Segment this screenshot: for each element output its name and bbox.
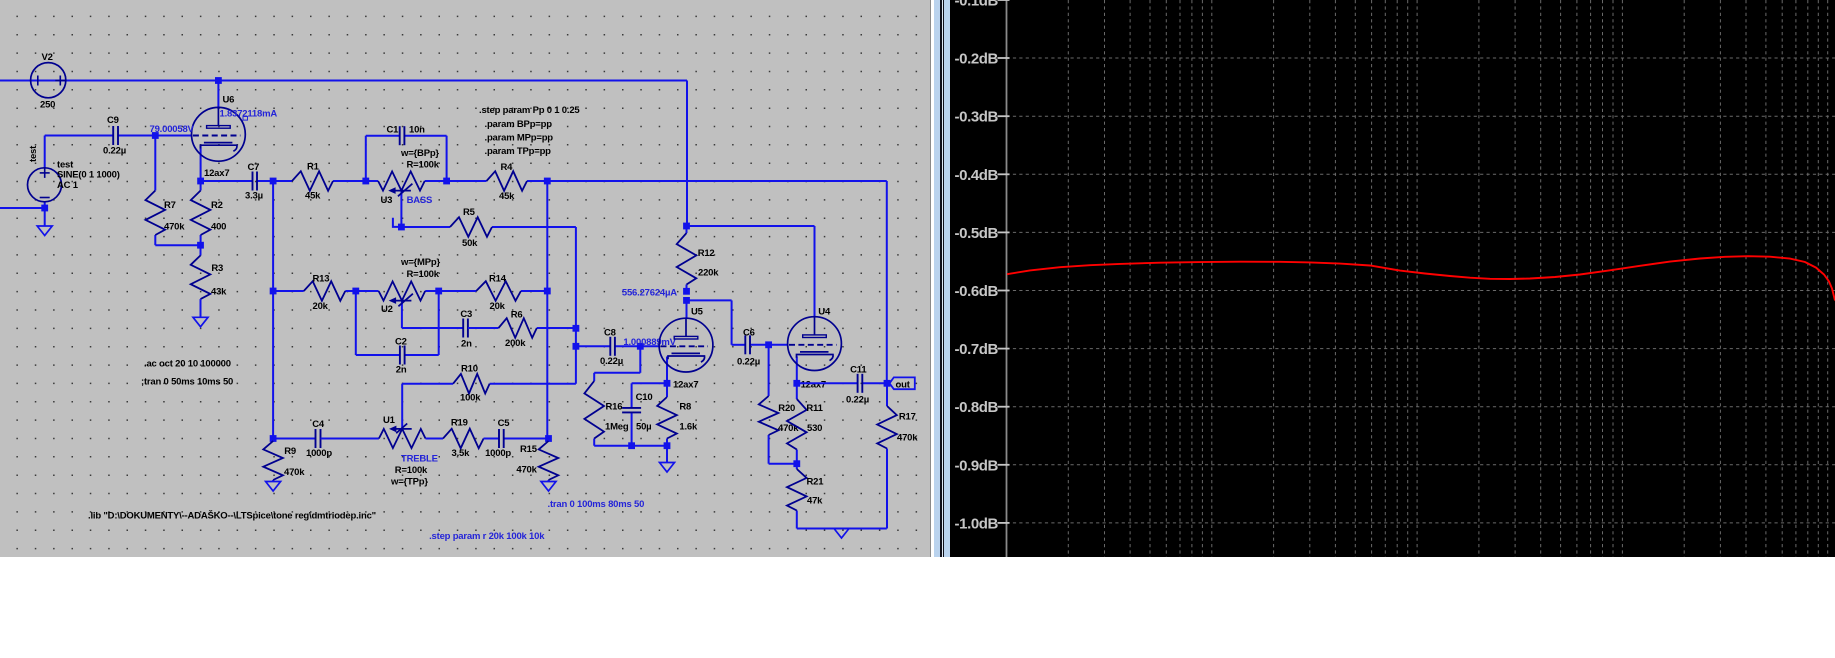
resistor R16 (593, 380, 595, 382)
svg-text:C5: C5 (498, 418, 511, 429)
wire R4 vertical bus (546, 181, 548, 439)
wire left vertical bus (272, 181, 274, 439)
svg-text:C8: C8 (604, 328, 616, 339)
resistor R21 (796, 464, 798, 469)
wire C1 left riser (365, 136, 367, 181)
svg-text:R5: R5 (463, 207, 476, 218)
triode tube U5 (659, 318, 713, 372)
wire grid net drop (639, 346, 641, 373)
svg-text:V2: V2 (42, 52, 53, 63)
node R1/C1/U3 (362, 178, 369, 185)
node test bottom (41, 205, 48, 212)
wire U3 wiper drop (400, 190, 402, 227)
wire U4 cathode lead (796, 356, 798, 383)
svg-text:470k: 470k (516, 465, 537, 476)
capacitor C6 (732, 344, 746, 346)
wire U3 lower stub (393, 218, 402, 227)
node C4 in node (270, 435, 277, 442)
node U6 cathode node (197, 178, 204, 185)
svg-text:79.00058V: 79.00058V (150, 124, 195, 135)
node out node (884, 380, 891, 387)
svg-text:SINE(0 1 1000): SINE(0 1 1000) (57, 170, 120, 181)
node C8 in node (573, 343, 580, 350)
svg-text:R2: R2 (211, 200, 223, 211)
node C1/U3/R4 (443, 178, 450, 185)
svg-text:test: test (28, 145, 39, 162)
svg-text:R15: R15 (520, 444, 538, 455)
svg-text:-1.0dB: -1.0dB (955, 515, 999, 532)
svg-text:U3: U3 (381, 195, 393, 206)
svg-text:R16: R16 (606, 402, 623, 413)
node U3 wiper node (398, 224, 405, 231)
resistor R2 (200, 190, 202, 192)
resistor R13 (273, 290, 304, 292)
svg-text:U1: U1 (383, 415, 396, 426)
svg-text:-0.8dB: -0.8dB (955, 399, 999, 416)
svg-text:R7: R7 (164, 200, 176, 211)
node R7/R2/R3 (197, 242, 204, 249)
svg-text:.param MPp=pp: .param MPp=pp (485, 133, 554, 144)
capacitor C10 (631, 383, 633, 408)
svg-text:1Meg: 1Meg (605, 422, 629, 433)
svg-text:220k: 220k (698, 268, 719, 279)
svg-text:AC 1: AC 1 (57, 180, 79, 191)
resistor R6 (468, 327, 499, 329)
svg-text:20k: 20k (490, 301, 506, 312)
svg-text:2n: 2n (396, 365, 407, 376)
plot grid (1007, 0, 1835, 557)
node R6 out node (573, 325, 580, 332)
wire R7 bottom lead (154, 235, 156, 245)
svg-text:20k: 20k (313, 301, 329, 312)
svg-text:C10: C10 (636, 392, 653, 403)
node U4 cathode node (793, 380, 800, 387)
svg-text:R19: R19 (451, 418, 468, 429)
wire to R16 top (594, 372, 640, 374)
node U2/C2/R14 (435, 288, 442, 295)
svg-text:47k: 47k (807, 496, 823, 507)
node U4 grid node (765, 341, 772, 348)
svg-text:470k: 470k (284, 467, 305, 478)
resistor R3 (200, 245, 202, 255)
resistor R19 (426, 438, 443, 440)
svg-text:C4: C4 (312, 419, 325, 430)
svg-text:3.3µ: 3.3µ (245, 191, 263, 202)
wire plate out wire (687, 299, 732, 301)
svg-text:400: 400 (211, 222, 226, 233)
wire output gnd row (797, 528, 887, 530)
dB tick labels (998, 0, 1010, 1)
potentiometer U2 (356, 290, 379, 292)
svg-text:530: 530 (807, 423, 822, 434)
potentiometer U3 (366, 180, 378, 182)
svg-text:200k: 200k (505, 338, 526, 349)
svg-text:C7: C7 (248, 162, 260, 173)
capacitor C5 (484, 438, 499, 440)
svg-text:R14: R14 (489, 274, 507, 285)
wire feedback right drop (886, 181, 888, 383)
svg-text:0.22µ: 0.22µ (600, 356, 623, 367)
node U5 grid node (637, 343, 644, 350)
svg-text:R=100k: R=100k (395, 465, 428, 476)
node R13/U2/C2 (352, 288, 359, 295)
svg-text:1000p: 1000p (306, 448, 332, 459)
resistor R5 (401, 226, 450, 228)
svg-text:out: out (896, 380, 911, 391)
svg-text:10n: 10n (409, 125, 425, 136)
svg-text:.lib "D:\DOKUMENTY\--ADAŠKO--\: .lib "D:\DOKUMENTY\--ADAŠKO--\LTSpice\to… (88, 510, 376, 522)
triode tube U6 (192, 107, 246, 161)
resistor R7 (154, 190, 156, 192)
svg-text:C3: C3 (460, 309, 472, 320)
svg-text:BASS: BASS (407, 195, 433, 206)
svg-text:556.27624µA: 556.27624µA (622, 288, 677, 299)
wire C1 right drop (446, 136, 448, 181)
svg-text:.ac oct 20 10 100000: .ac oct 20 10 100000 (144, 359, 231, 370)
svg-text:45k: 45k (305, 191, 321, 202)
resistor R8 (666, 383, 668, 397)
svg-text:.step param Pp 0 1 0.25: .step param Pp 0 1 0.25 (479, 105, 580, 116)
capacitor C3 (402, 327, 463, 329)
svg-text:0.22µ: 0.22µ (737, 357, 760, 368)
wire R3 bottom lead (200, 299, 202, 317)
svg-text:470k: 470k (164, 222, 185, 233)
svg-text:50k: 50k (462, 238, 478, 249)
svg-text:-0.7dB: -0.7dB (955, 341, 999, 358)
node B+/U6 plate (215, 77, 222, 84)
resistor R11 (796, 383, 798, 399)
svg-text:-0.9dB: -0.9dB (955, 457, 999, 474)
svg-text:250: 250 (40, 100, 55, 111)
svg-text:3.5k: 3.5k (452, 448, 471, 459)
wire R7-R2 bottom tie (155, 244, 200, 246)
svg-text:R4: R4 (501, 162, 514, 173)
svg-text:C1: C1 (387, 125, 400, 136)
svg-text:-0.2dB: -0.2dB (955, 51, 999, 68)
voltage source test (28, 168, 62, 202)
ground (R3) (193, 317, 208, 327)
svg-text:1.6k: 1.6k (679, 422, 698, 433)
wire R16 bottom lead (593, 439, 595, 446)
svg-text:U5: U5 (691, 307, 704, 318)
wire mid vertical bus (575, 227, 577, 384)
wire U1 wiper riser (401, 384, 403, 429)
svg-text:U4: U4 (818, 307, 831, 318)
wire U4 plate lead (814, 226, 816, 318)
frequency response trace V(out) (1007, 256, 1835, 300)
capacitor C2 (356, 354, 400, 356)
capacitor C1 (366, 135, 400, 137)
capacitor C4 (273, 438, 315, 440)
resistor R20 (768, 395, 770, 397)
node C5/R15 node (545, 435, 552, 442)
svg-text:R9: R9 (284, 446, 296, 457)
y axis (1006, 0, 1008, 557)
wire C2 left drop (355, 291, 357, 355)
resistor R9 (272, 439, 274, 442)
svg-text:0.22µ: 0.22µ (103, 146, 126, 157)
window splitter (930, 0, 931, 557)
node R14 out node (544, 288, 551, 295)
wire R20 top lead (768, 345, 770, 396)
wire R20-R11 tie (769, 463, 797, 465)
resistor R12 (686, 226, 688, 233)
svg-text:R3: R3 (211, 263, 223, 274)
svg-text:R8: R8 (679, 402, 691, 413)
node U5 plate node (683, 297, 690, 304)
ground (test) (37, 226, 52, 236)
wire gnd lead (666, 446, 668, 463)
svg-text:C6: C6 (743, 328, 755, 339)
svg-text:-0.3dB: -0.3dB (955, 109, 999, 126)
svg-text:R=100k: R=100k (407, 269, 440, 280)
capacitor C7 (201, 180, 253, 182)
wire input stub (0, 207, 45, 209)
out port flag (890, 377, 915, 389)
svg-text:1000p: 1000p (485, 448, 511, 459)
svg-text:.tran 0 100ms 80ms 50: .tran 0 100ms 80ms 50 (548, 499, 645, 510)
wire U6 cathode to R2 (200, 146, 202, 191)
svg-text:;tran 0 50ms 10ms 50: ;tran 0 50ms 10ms 50 (141, 377, 233, 388)
svg-text:U2: U2 (381, 304, 393, 315)
wire U6 plate lead (217, 81, 219, 110)
resistor R10 (402, 383, 453, 385)
svg-text:470k: 470k (778, 423, 799, 434)
svg-text:-0.6dB: -0.6dB (955, 283, 999, 300)
svg-text:w={MPp}: w={MPp} (400, 257, 440, 268)
node bus/R13 (270, 288, 277, 295)
wire R7 top lead (154, 136, 156, 191)
wire R20 bottom lead (768, 435, 770, 464)
svg-text:C11: C11 (850, 365, 867, 376)
ground (R9) (266, 482, 281, 492)
svg-text:U6: U6 (223, 95, 235, 106)
node R8 gnd node (664, 442, 671, 449)
svg-text:w={BPp}: w={BPp} (400, 148, 439, 159)
svg-text:12ax7: 12ax7 (673, 380, 698, 391)
wire test source to C9 row (44, 136, 46, 168)
svg-text:1.8372118mA: 1.8372118mA (220, 109, 278, 120)
resistor R17 (886, 383, 888, 406)
svg-text:R11: R11 (806, 403, 823, 414)
svg-text:-0.5dB: -0.5dB (955, 225, 999, 242)
svg-text:-0.1dB: -0.1dB (955, 0, 999, 10)
voltage source V2 (31, 63, 66, 98)
wire cathode gnd row (594, 445, 667, 447)
svg-text:R17: R17 (899, 412, 916, 423)
svg-text:C9: C9 (107, 115, 119, 126)
ground (cathode) (660, 463, 675, 473)
svg-text:470k: 470k (897, 433, 918, 444)
capacitor C11 (797, 382, 858, 384)
resistor R14 (439, 290, 477, 292)
triode tube U4 (788, 317, 842, 371)
svg-text:50µ: 50µ (636, 422, 651, 433)
svg-text:w={TPp}: w={TPp} (390, 477, 428, 488)
svg-text:TREBLE: TREBLE (401, 454, 438, 465)
svg-text:-0.4dB: -0.4dB (955, 167, 999, 184)
wire B+ drop to R12/U4 (686, 81, 688, 227)
wire U5 plate lead (686, 300, 688, 318)
svg-text:1.000889mV: 1.000889mV (623, 337, 676, 348)
svg-text:R1: R1 (307, 162, 320, 173)
node R4 out node (544, 178, 551, 185)
wire U2 wiper drop (401, 300, 403, 328)
wire C2 right riser (438, 291, 440, 355)
node R12 bottom node (683, 288, 690, 295)
svg-text:R13: R13 (313, 274, 330, 285)
capacitor C9 (45, 135, 114, 137)
node R11/R21 node (793, 460, 800, 467)
node C9/R7/grid (152, 132, 159, 139)
svg-text:0.22µ: 0.22µ (846, 395, 869, 406)
node U5 cathode node (664, 380, 671, 387)
svg-text:100k: 100k (460, 393, 481, 404)
resistor R15 (548, 439, 550, 442)
svg-text:R6: R6 (511, 310, 523, 321)
svg-text:43k: 43k (211, 287, 227, 298)
svg-text:2n: 2n (461, 339, 472, 350)
resistor R4 (447, 180, 487, 182)
ground (output) (834, 529, 849, 539)
capacitor C8 (576, 345, 610, 347)
wire B+ rail (0, 80, 687, 82)
svg-text:R21: R21 (807, 477, 825, 488)
ground (R15) (541, 482, 556, 492)
svg-text:R20: R20 (778, 403, 795, 414)
wire R2 bottom lead (200, 235, 202, 245)
svg-text:12ax7: 12ax7 (204, 168, 229, 179)
wire R16 top lead (593, 373, 595, 381)
svg-text:12ax7: 12ax7 (801, 380, 826, 391)
wire U5 cathode lead (666, 357, 668, 384)
wire C10 top tie (632, 382, 667, 384)
svg-text:R10: R10 (461, 364, 478, 375)
svg-text:45k: 45k (499, 191, 515, 202)
svg-text:.step param r 20k 100k 10k: .step param r 20k 100k 10k (429, 531, 545, 542)
node R12 top node (683, 223, 690, 230)
svg-text:.param TPp=pp: .param TPp=pp (485, 146, 552, 157)
node C7 out node (270, 178, 277, 185)
node C10 gnd node (628, 442, 635, 449)
wire feedback top rail (527, 180, 887, 182)
svg-text:R12: R12 (698, 248, 715, 259)
wire test source bottom (44, 202, 46, 226)
svg-text:R=100k: R=100k (407, 160, 440, 171)
wire drop to C6 (731, 300, 733, 344)
potentiometer U1 (321, 438, 379, 440)
svg-text:.param BPp=pp: .param BPp=pp (485, 119, 553, 130)
wire U4 plate feed (687, 225, 815, 227)
resistor R1 (273, 180, 292, 182)
svg-text:C2: C2 (395, 337, 407, 348)
